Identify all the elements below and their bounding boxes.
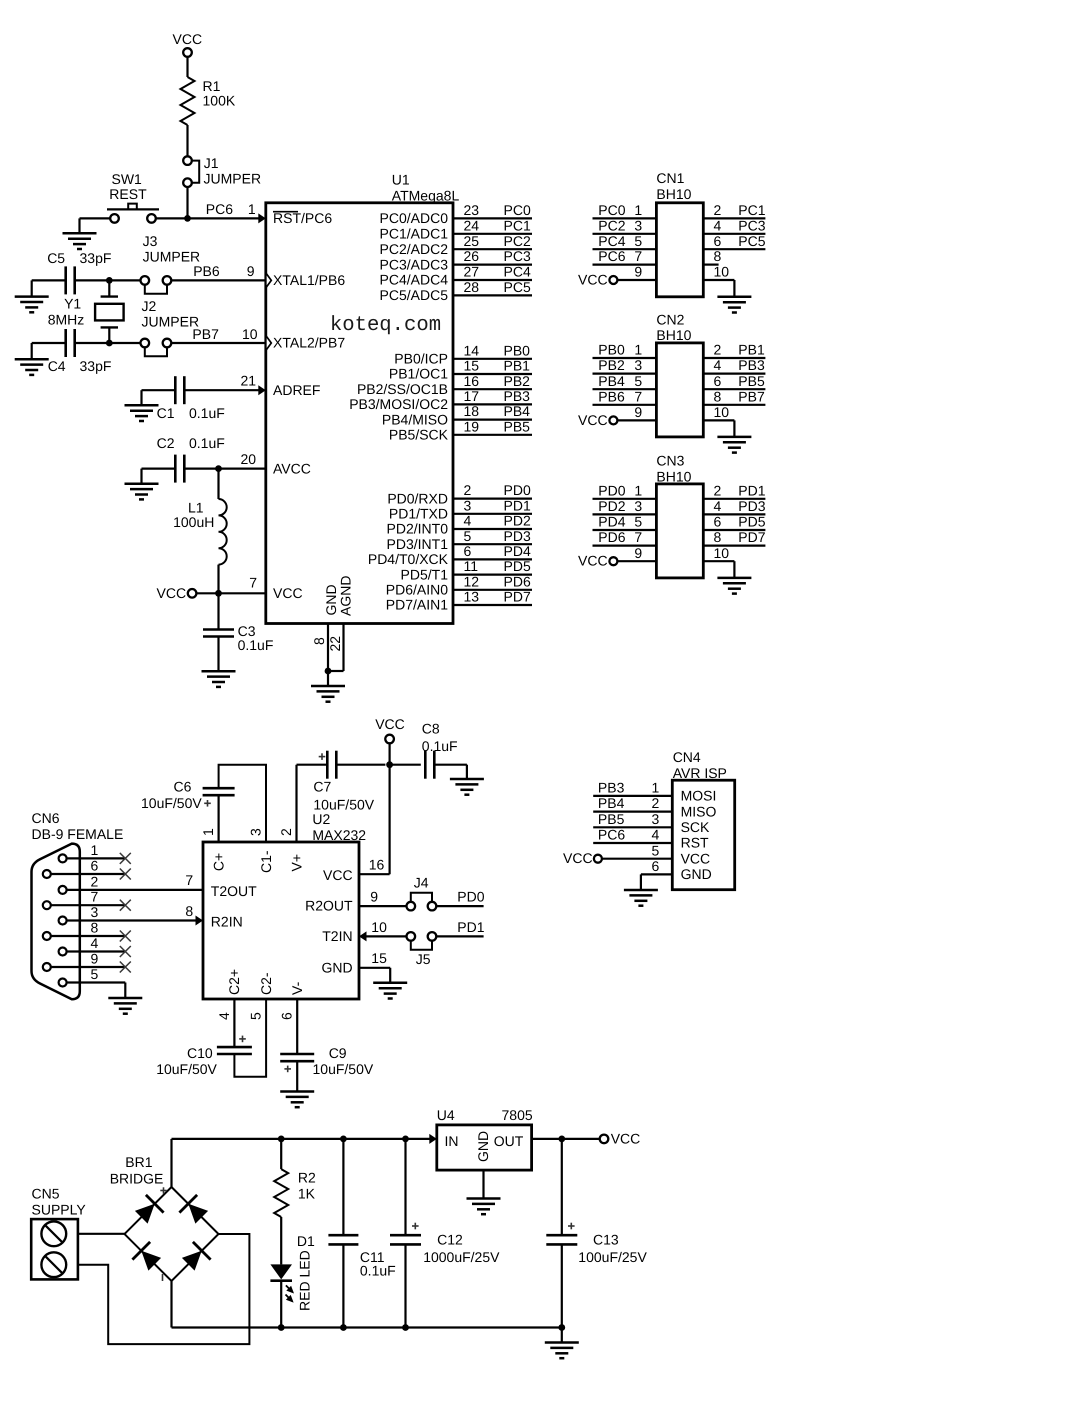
- diode BR1 upper-right (AC2 to +): [188, 1204, 208, 1224]
- svg-text:20: 20: [241, 451, 257, 467]
- svg-text:6: 6: [714, 233, 722, 249]
- svg-text:33pF: 33pF: [80, 250, 112, 266]
- svg-text:16: 16: [369, 857, 385, 873]
- U1 pin 2 PD0/RXD net PD0: [453, 498, 532, 500]
- ground at C8: [450, 779, 484, 795]
- svg-text:17: 17: [464, 388, 480, 404]
- svg-text:PC2: PC2: [504, 233, 531, 249]
- svg-text:R2IN: R2IN: [211, 913, 243, 929]
- svg-text:7: 7: [91, 889, 99, 905]
- U1 pin 6 PD4/T0/XCK net PD4: [453, 558, 532, 560]
- svg-text:C2+: C2+: [226, 969, 242, 995]
- svg-text:PC3: PC3: [738, 217, 765, 233]
- CN2 pin 8 net PB7: [703, 404, 765, 406]
- jumper J1: [183, 156, 192, 165]
- wire U4 OUT to VCC: [532, 1138, 600, 1140]
- CN3 pin 6 net PD5: [703, 529, 765, 531]
- wire CN5 terminal 2 to BR1 AC2: [78, 1234, 250, 1344]
- wire CN6 pin 5 to ground: [67, 981, 126, 983]
- svg-text:C7: C7: [313, 779, 331, 795]
- svg-text:RST: RST: [681, 835, 709, 851]
- svg-text:CN5: CN5: [32, 1186, 60, 1202]
- no-connect X at CN6 pin 8: [120, 931, 131, 942]
- U1 pin 15 PB1/OC1 net PB1: [453, 373, 532, 375]
- wire bottom rail to ground: [561, 1328, 563, 1343]
- U4 GND pin to ground: [482, 1170, 484, 1198]
- svg-text:7: 7: [249, 574, 257, 590]
- svg-text:PD5: PD5: [504, 558, 531, 574]
- svg-text:PD6: PD6: [504, 573, 531, 589]
- wire to ground: [325, 668, 332, 675]
- ground at CN2: [717, 437, 751, 453]
- svg-text:PD3/INT1: PD3/INT1: [387, 536, 449, 552]
- svg-text:1: 1: [200, 828, 216, 836]
- U1 pin 19 PB5/SCK net PB5: [453, 434, 532, 436]
- net PB6 wire: [75, 279, 141, 281]
- CN6 pin 2: [59, 886, 67, 894]
- voltage regulator U4 7805 body: [437, 1125, 532, 1170]
- svg-text:PD4: PD4: [598, 514, 625, 530]
- svg-text:27: 27: [464, 264, 480, 280]
- svg-text:PC6: PC6: [598, 827, 625, 843]
- svg-text:23: 23: [464, 202, 480, 218]
- svg-text:2: 2: [714, 482, 722, 498]
- wire CN6 pin 3 to R2IN: [67, 919, 196, 921]
- svg-text:PD1: PD1: [457, 919, 484, 935]
- svg-text:MOSI: MOSI: [681, 788, 717, 804]
- svg-text:4: 4: [714, 217, 722, 233]
- svg-text:3: 3: [634, 217, 642, 233]
- CN6 pin 6: [43, 870, 51, 878]
- no-connect X at CN6 pin 4: [120, 946, 131, 957]
- svg-text:1: 1: [634, 482, 642, 498]
- svg-text:4: 4: [464, 513, 472, 529]
- svg-text:3: 3: [634, 498, 642, 514]
- ground at CN4: [624, 890, 658, 906]
- svg-text:C1-: C1-: [258, 850, 274, 873]
- svg-text:C+: C+: [210, 853, 226, 871]
- svg-text:J1: J1: [204, 155, 219, 171]
- CN3 pin 8 net PD7: [703, 544, 765, 546]
- svg-text:PD3: PD3: [504, 528, 531, 544]
- svg-text:6: 6: [714, 373, 722, 389]
- svg-text:10uF/50V: 10uF/50V: [141, 795, 202, 811]
- CN1 pin 4 net PC3: [703, 233, 765, 235]
- ground at C4: [15, 359, 49, 375]
- svg-text:21: 21: [241, 373, 257, 389]
- svg-text:C4: C4: [48, 358, 66, 374]
- svg-text:PD6: PD6: [598, 529, 625, 545]
- svg-text:VCC: VCC: [681, 850, 711, 866]
- svg-text:5: 5: [634, 373, 642, 389]
- svg-text:BRIDGE: BRIDGE: [110, 1170, 164, 1186]
- CN1 pin 10 to ground: [703, 279, 734, 281]
- wire BR1 + to VCC rail: [170, 1139, 172, 1187]
- U2 pin 10 T2IN: [359, 931, 367, 941]
- svg-text:C8: C8: [422, 720, 440, 736]
- svg-text:VCC: VCC: [563, 850, 593, 866]
- svg-text:Y1: Y1: [64, 296, 81, 312]
- svg-text:C1: C1: [157, 405, 175, 421]
- svg-text:PB2/SS/OC1B: PB2/SS/OC1B: [357, 381, 448, 397]
- wire top rail to R2: [280, 1139, 282, 1169]
- svg-text:26: 26: [464, 248, 480, 264]
- LED D1 RED LED: [270, 1264, 292, 1279]
- svg-text:C5: C5: [47, 250, 65, 266]
- svg-text:7: 7: [634, 248, 642, 264]
- svg-text:PC0/ADC0: PC0/ADC0: [380, 210, 449, 226]
- svg-text:1: 1: [634, 342, 642, 358]
- svg-text:GND: GND: [681, 866, 712, 882]
- capacitor C11 0.1uF: [342, 1139, 344, 1235]
- svg-text:10uF/50V: 10uF/50V: [156, 1061, 217, 1077]
- U1 pin 25 PC2/ADC2 net PC2: [453, 248, 532, 250]
- svg-text:PC1/ADC1: PC1/ADC1: [380, 226, 449, 242]
- svg-text:10uF/50V: 10uF/50V: [313, 1061, 374, 1077]
- net PC6 wire to U1 pin 1: [156, 217, 260, 219]
- svg-text:PC3/ADC3: PC3/ADC3: [380, 256, 449, 272]
- wire C3 to ground: [217, 637, 219, 672]
- svg-text:GND: GND: [321, 960, 352, 976]
- svg-text:C12: C12: [437, 1232, 463, 1248]
- svg-text:100K: 100K: [203, 93, 236, 109]
- capacitor C12 1000uF/25V: [404, 1139, 406, 1235]
- svg-text:4: 4: [714, 498, 722, 514]
- CN2 pin 10 to ground: [703, 419, 734, 421]
- power flag VCC output: [600, 1135, 609, 1144]
- svg-text:PC2: PC2: [598, 217, 625, 233]
- svg-text:BR1: BR1: [125, 1154, 152, 1170]
- capacitor C6 10uF/50V: [218, 795, 220, 842]
- svg-text:0.1uF: 0.1uF: [422, 738, 458, 754]
- svg-text:15: 15: [371, 950, 387, 966]
- ground at C9: [280, 1092, 314, 1108]
- CN6 pin 7: [43, 901, 51, 909]
- capacitor C7 10uF/50V: [295, 765, 297, 842]
- U1 pin 4 PD2/INT0 net PD2: [453, 528, 532, 530]
- svg-text:PC0: PC0: [598, 202, 625, 218]
- wire CN6 pin 2 to T2OUT: [67, 889, 203, 891]
- wire J1 to node PC6: [186, 187, 188, 219]
- svg-text:PD5/T1: PD5/T1: [401, 566, 449, 582]
- svg-text:PC4: PC4: [598, 233, 625, 249]
- svg-text:PC2/ADC2: PC2/ADC2: [380, 241, 449, 257]
- wire SW1 to ground: [80, 217, 111, 219]
- svg-text:4: 4: [652, 827, 660, 843]
- svg-text:13: 13: [464, 589, 480, 605]
- svg-text:1: 1: [634, 202, 642, 218]
- svg-text:koteq.com: koteq.com: [330, 314, 441, 337]
- CN1 pin 3 net PC2: [593, 233, 657, 235]
- svg-text:PD4/T0/XCK: PD4/T0/XCK: [368, 551, 449, 567]
- svg-text:PD4: PD4: [504, 543, 531, 559]
- svg-text:T2OUT: T2OUT: [211, 883, 257, 899]
- LED D1 emission arrows: [286, 1285, 293, 1292]
- svg-text:PD7/AIN1: PD7/AIN1: [386, 597, 448, 613]
- svg-text:CN1: CN1: [656, 170, 684, 186]
- CN3 pin 3 net PD2: [593, 513, 657, 515]
- ground at U2 pin 15: [373, 983, 407, 999]
- svg-text:C6: C6: [174, 779, 192, 795]
- svg-text:PB3/MOSI/OC2: PB3/MOSI/OC2: [349, 396, 448, 412]
- ground at U4: [467, 1199, 501, 1215]
- U1 pin 14 PB0/ICP net PB0: [453, 358, 532, 360]
- svg-text:PC5: PC5: [504, 279, 531, 295]
- CN3 pin 4 net PD3: [703, 513, 765, 515]
- svg-text:10: 10: [242, 326, 258, 342]
- svg-text:SCK: SCK: [681, 819, 710, 835]
- svg-text:0.1uF: 0.1uF: [238, 637, 274, 653]
- svg-text:AGND: AGND: [338, 576, 354, 616]
- svg-text:PB6: PB6: [598, 388, 625, 404]
- U1 pin 18 PB4/MISO net PB4: [453, 419, 532, 421]
- svg-text:8: 8: [311, 637, 327, 645]
- svg-text:6: 6: [91, 857, 99, 873]
- diode BR1 lower-left (- to AC1): [141, 1251, 161, 1271]
- no-connect X at CN6 pin 6: [120, 869, 131, 880]
- svg-text:PB0: PB0: [504, 342, 531, 358]
- svg-text:1: 1: [91, 842, 99, 858]
- CN1 pin 6 net PC5: [703, 248, 765, 250]
- svg-text:ATMega8L: ATMega8L: [392, 187, 460, 203]
- svg-text:3: 3: [91, 904, 99, 920]
- svg-text:9: 9: [634, 404, 642, 420]
- svg-text:BH10: BH10: [656, 186, 691, 202]
- inductor L1 100uH: [217, 469, 219, 499]
- svg-text:C13: C13: [593, 1232, 619, 1248]
- svg-text:3: 3: [652, 811, 660, 827]
- svg-text:J3: J3: [143, 233, 158, 249]
- svg-text:PD7: PD7: [504, 589, 531, 605]
- wire C1 to ADREF pin 21: [184, 389, 259, 391]
- no-connect X at CN6 pin 1: [120, 853, 131, 864]
- svg-text:D1: D1: [297, 1233, 315, 1249]
- ground at CN3: [717, 578, 751, 594]
- unregulated DC top rail: [172, 1138, 430, 1140]
- svg-text:16: 16: [464, 373, 480, 389]
- svg-text:2: 2: [91, 873, 99, 889]
- svg-text:PB5: PB5: [738, 373, 765, 389]
- svg-text:C2: C2: [157, 435, 175, 451]
- svg-text:3: 3: [248, 828, 264, 836]
- svg-text:XTAL1/PB6: XTAL1/PB6: [273, 272, 345, 288]
- svg-text:PD1/TXD: PD1/TXD: [389, 506, 448, 522]
- connector CN2 BH10 body: [656, 343, 703, 437]
- svg-text:5: 5: [91, 966, 99, 982]
- svg-text:0.1uF: 0.1uF: [189, 435, 225, 451]
- svg-text:IN: IN: [445, 1133, 459, 1149]
- wire C5 to ground: [32, 279, 66, 281]
- svg-text:11: 11: [464, 558, 479, 574]
- svg-text:8: 8: [91, 919, 99, 935]
- connector CN3 BH10 body: [656, 484, 703, 578]
- ground at C3: [202, 671, 236, 687]
- wire C1 to ground: [142, 389, 176, 391]
- svg-text:VCC: VCC: [173, 31, 203, 47]
- svg-text:PD0/RXD: PD0/RXD: [387, 490, 448, 506]
- net PB7 wire: [75, 342, 141, 344]
- svg-text:2: 2: [464, 482, 472, 498]
- U1 pin 3 PD1/TXD net PD1: [453, 513, 532, 515]
- resistor R1 100K: [181, 77, 195, 125]
- svg-text:3: 3: [634, 357, 642, 373]
- wire C2 to AVCC pin 20: [184, 468, 265, 470]
- CN2 pin 6 net PB5: [703, 388, 765, 390]
- op-amp U1 ATMega8L body: [266, 203, 453, 624]
- U1 pin 23 PC0/ADC0 net PC0: [453, 217, 532, 219]
- svg-text:PD2: PD2: [504, 513, 531, 529]
- CN3 pin 2 net PD1: [703, 498, 765, 500]
- ground at CN6 pin 5: [108, 998, 142, 1014]
- svg-text:PB3: PB3: [598, 780, 625, 796]
- svg-text:C10: C10: [187, 1045, 213, 1061]
- U1 pin 16 PB2/SS/OC1B net PB2: [453, 388, 532, 390]
- svg-text:ADREF: ADREF: [273, 382, 320, 398]
- U1 pin 5 PD3/INT1 net PD3: [453, 543, 532, 545]
- capacitor C1 0.1uF: [175, 376, 184, 404]
- svg-text:VCC: VCC: [323, 867, 353, 883]
- CN6 pin 3: [59, 917, 67, 925]
- svg-text:5: 5: [248, 1012, 264, 1020]
- U2 pin 16 VCC: [359, 873, 390, 875]
- capacitor C9 10uF/50V: [296, 999, 298, 1054]
- connector CN4 AVR ISP body: [672, 780, 734, 890]
- svg-text:4: 4: [714, 357, 722, 373]
- svg-text:PB1/OC1: PB1/OC1: [389, 366, 448, 382]
- svg-text:PC5/ADC5: PC5/ADC5: [380, 287, 449, 303]
- svg-text:J2: J2: [142, 298, 157, 314]
- svg-text:V-: V-: [289, 981, 305, 995]
- ground bottom rail: [172, 1326, 562, 1328]
- svg-text:PB0/ICP: PB0/ICP: [394, 351, 448, 367]
- svg-text:6: 6: [279, 1012, 295, 1020]
- svg-text:RED LED: RED LED: [297, 1250, 313, 1311]
- svg-text:PB5: PB5: [504, 418, 531, 434]
- svg-text:DB-9 FEMALE: DB-9 FEMALE: [32, 826, 124, 842]
- svg-text:1K: 1K: [298, 1186, 316, 1202]
- wire VCC to R1: [186, 57, 188, 77]
- svg-text:6: 6: [464, 543, 472, 559]
- U1 pin 24 PC1/ADC1 net PC1: [453, 233, 532, 235]
- CN2 pin 7 net PB6: [593, 404, 657, 406]
- svg-text:RST/PC6: RST/PC6: [273, 210, 332, 226]
- svg-text:10uF/50V: 10uF/50V: [313, 796, 374, 812]
- svg-text:PC0: PC0: [504, 202, 531, 218]
- svg-text:5: 5: [634, 233, 642, 249]
- svg-text:3: 3: [464, 497, 472, 513]
- CN1 pin 2 net PC1: [703, 217, 765, 219]
- net PD0 wire: [436, 905, 483, 907]
- U2 pin 9 R2OUT: [359, 905, 407, 907]
- U1 pin 26 PC3/ADC3 net PC3: [453, 264, 532, 266]
- svg-text:9: 9: [634, 545, 642, 561]
- svg-text:PD7: PD7: [738, 529, 765, 545]
- CN6 pin 8: [43, 932, 51, 940]
- svg-text:9: 9: [247, 263, 255, 279]
- svg-text:R2: R2: [298, 1169, 316, 1185]
- svg-text:PC4/ADC4: PC4/ADC4: [380, 272, 449, 288]
- svg-text:MAX232: MAX232: [312, 827, 366, 843]
- CN2 pin 5 net PB4: [593, 388, 657, 390]
- no-connect X at CN6 pin 9: [120, 962, 131, 973]
- svg-text:PB7: PB7: [738, 388, 765, 404]
- svg-text:PB2: PB2: [598, 357, 625, 373]
- svg-text:PB4/MISO: PB4/MISO: [382, 411, 448, 427]
- svg-text:PB1: PB1: [504, 358, 531, 374]
- U1 pin 28 PC5/ADC5 net PC5: [453, 294, 532, 296]
- svg-text:6: 6: [714, 514, 722, 530]
- wire VCC node: [389, 743, 391, 765]
- CN6 pin 1: [59, 854, 67, 862]
- svg-text:0.1uF: 0.1uF: [189, 405, 225, 421]
- svg-text:JUMPER: JUMPER: [143, 248, 201, 264]
- svg-text:PD2/INT0: PD2/INT0: [387, 521, 449, 537]
- svg-text:JUMPER: JUMPER: [142, 313, 200, 329]
- CN1 pin 5 net PC4: [593, 248, 657, 250]
- svg-text:4: 4: [91, 935, 99, 951]
- CN3 pin 5 net PD4: [593, 529, 657, 531]
- U1 pin 13 PD7/AIN1 net PD7: [453, 604, 532, 606]
- no-connect X at CN6 pin 7: [120, 900, 131, 911]
- svg-text:10: 10: [714, 404, 730, 420]
- svg-text:9: 9: [634, 264, 642, 280]
- svg-text:9: 9: [370, 889, 378, 905]
- svg-text:22: 22: [327, 636, 343, 652]
- net PD1 wire: [436, 935, 483, 937]
- wire R1 to J1: [186, 125, 188, 156]
- ground at C1: [125, 405, 159, 421]
- capacitor C8 0.1uF: [390, 764, 421, 766]
- svg-text:XTAL2/PB7: XTAL2/PB7: [273, 335, 345, 351]
- svg-text:PC1: PC1: [504, 217, 531, 233]
- svg-text:24: 24: [464, 217, 480, 233]
- svg-text:PC1: PC1: [738, 202, 765, 218]
- svg-text:2: 2: [278, 828, 294, 836]
- svg-text:C9: C9: [329, 1045, 347, 1061]
- svg-text:REST: REST: [109, 186, 147, 202]
- ground at CN1: [717, 297, 751, 313]
- svg-text:10: 10: [714, 264, 730, 280]
- svg-text:AVCC: AVCC: [273, 460, 311, 476]
- svg-text:8: 8: [714, 388, 722, 404]
- svg-text:SUPPLY: SUPPLY: [32, 1201, 87, 1217]
- svg-text:BH10: BH10: [656, 327, 691, 343]
- ground at C5: [15, 297, 49, 313]
- svg-text:PB2: PB2: [504, 373, 531, 389]
- svg-text:PB4: PB4: [504, 403, 531, 419]
- jumper J2: [141, 339, 150, 348]
- svg-text:8: 8: [714, 248, 722, 264]
- U1 pin 11 PD5/T1 net PD5: [453, 573, 532, 575]
- svg-text:2: 2: [652, 795, 660, 811]
- svg-text:100uF/25V: 100uF/25V: [578, 1249, 647, 1265]
- connector CN1 BH10 body: [656, 203, 703, 297]
- capacitor C2 0.1uF: [175, 455, 184, 483]
- svg-text:U1: U1: [392, 172, 410, 188]
- svg-text:18: 18: [464, 403, 480, 419]
- svg-text:PB3: PB3: [504, 388, 531, 404]
- svg-text:7805: 7805: [502, 1107, 533, 1123]
- CN2 pin 2 net PB1: [703, 357, 765, 359]
- svg-text:PB5/SCK: PB5/SCK: [389, 427, 449, 443]
- svg-text:CN6: CN6: [32, 810, 60, 826]
- svg-text:10: 10: [714, 545, 730, 561]
- svg-text:8MHz: 8MHz: [48, 311, 85, 327]
- svg-text:PD1: PD1: [738, 482, 765, 498]
- op-amp U2 MAX232 body: [203, 842, 359, 999]
- svg-text:BH10: BH10: [656, 468, 691, 484]
- resistor R2 1K: [274, 1169, 288, 1217]
